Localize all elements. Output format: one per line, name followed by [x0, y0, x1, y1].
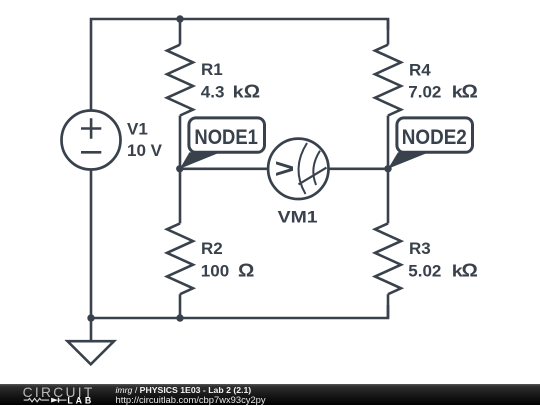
R1 top lead wire	[179, 19, 182, 45]
ground triangle symbol	[68, 341, 115, 364]
NODE1 callout pointer	[180, 152, 221, 169]
svg-text:7.02: 7.02	[408, 83, 441, 102]
R3 top lead wire	[387, 169, 390, 224]
svg-text:>: >	[275, 154, 295, 184]
R4 bottom lead wire	[387, 116, 390, 169]
VM1 meter needle	[299, 168, 327, 185]
R2 bottom lead wire	[179, 294, 182, 318]
logo resistor squiggle	[24, 398, 49, 401]
R4 zigzag body	[375, 45, 401, 116]
svg-text:R3: R3	[409, 239, 431, 258]
voltmeter VM1	[268, 139, 328, 199]
junction dot NODE1	[176, 165, 183, 172]
V1 plus mark (positive terminal)	[81, 118, 101, 138]
R3 bottom lead wire	[387, 294, 390, 318]
svg-text:k: k	[233, 82, 245, 101]
VM1 meter scale arc inner	[313, 151, 320, 185]
wire bottom rail (V1 bottom, down and across to R3)	[91, 170, 388, 319]
resistor R1	[167, 19, 193, 169]
svg-text:Ω: Ω	[462, 261, 478, 281]
resistor R3	[375, 169, 401, 318]
R2 zigzag body	[167, 223, 193, 294]
voltage source V1	[62, 111, 121, 170]
CircuitLab logo	[0, 384, 110, 405]
logo wire to LAB	[59, 399, 67, 401]
svg-text:Ω: Ω	[244, 82, 260, 102]
wire node row left (NODE1 to voltmeter)	[180, 168, 268, 171]
wire node row right (voltmeter to NODE2)	[329, 168, 388, 171]
svg-text:10 V: 10 V	[127, 141, 163, 160]
logo diode triangle	[51, 398, 58, 403]
wire top rail (V1 top, up and across to R4)	[91, 19, 388, 111]
NODE1 callout box	[189, 118, 265, 152]
V1 minus mark (negative terminal)	[81, 151, 101, 154]
NODE2 callout pointer	[388, 152, 429, 169]
svg-text:LAB: LAB	[67, 396, 94, 406]
svg-text:Ω: Ω	[462, 83, 478, 103]
R3 zigzag body	[375, 223, 401, 294]
ground lead wire	[90, 318, 93, 341]
footer bar	[0, 384, 540, 405]
VM1 body circle	[268, 139, 328, 199]
ground	[68, 318, 115, 364]
svg-text:100: 100	[201, 261, 229, 280]
logo diode cathode bar	[58, 398, 60, 403]
svg-text:NODE1: NODE1	[194, 126, 258, 149]
junction dot bottom-mid	[176, 314, 183, 321]
svg-text:R4: R4	[409, 60, 431, 79]
svg-text:Ω: Ω	[238, 261, 254, 281]
R4 top lead wire	[387, 19, 390, 45]
svg-text:V1: V1	[127, 120, 148, 139]
node NODE2 callout	[388, 118, 473, 169]
R2 top lead wire	[179, 169, 182, 224]
NODE2 callout box	[397, 118, 473, 152]
svg-text:R1: R1	[201, 60, 223, 79]
footer text	[116, 386, 266, 405]
svg-text:VM1: VM1	[278, 207, 318, 227]
node NODE1 callout	[180, 118, 265, 169]
junction dot top	[176, 15, 183, 22]
R1 zigzag body	[167, 45, 193, 116]
V1 body circle	[62, 111, 121, 170]
resistor R2	[167, 169, 193, 318]
resistor R4	[375, 19, 401, 169]
svg-text:5.02: 5.02	[408, 261, 441, 280]
svg-text:R2: R2	[201, 239, 223, 258]
svg-text:NODE2: NODE2	[402, 126, 467, 149]
junction dot NODE2	[384, 165, 391, 172]
junction dot bottom-left	[87, 314, 94, 321]
VM1 meter scale arc outer	[299, 143, 307, 194]
svg-text:4.3: 4.3	[201, 82, 225, 101]
R1 bottom lead wire	[179, 116, 182, 169]
